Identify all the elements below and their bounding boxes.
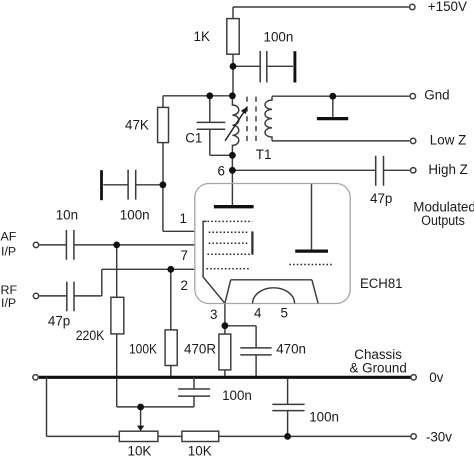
cathode heater right slant xyxy=(312,280,318,304)
svg-text:I/P: I/P xyxy=(1,296,16,310)
svg-text:470n: 470n xyxy=(276,341,306,356)
resistor R-470R leads xyxy=(224,326,226,376)
wire Gnd row xyxy=(272,95,409,97)
capacitor C1 leads xyxy=(210,96,233,156)
triode grid row xyxy=(289,264,333,266)
svg-text:100n: 100n xyxy=(309,410,339,425)
terminal AF xyxy=(33,242,38,247)
junction dot pin 6 xyxy=(229,167,236,174)
svg-text:0v: 0v xyxy=(429,370,443,385)
svg-text:4: 4 xyxy=(254,305,262,320)
svg-text:10K: 10K xyxy=(188,444,212,459)
wire RF input xyxy=(39,269,195,296)
terminal Low Z xyxy=(410,138,415,143)
junction dot -30v/100n xyxy=(284,433,291,440)
svg-text:10K: 10K xyxy=(128,444,152,459)
capacitor C-100n-br plates xyxy=(272,404,304,410)
junction dot 47K bottom xyxy=(160,181,167,188)
svg-text:100n: 100n xyxy=(120,208,150,223)
tube ECH81 envelope xyxy=(195,184,350,304)
terminal +150V xyxy=(410,4,415,9)
capacitor C-47p-out plates xyxy=(376,156,384,186)
svg-text:100n: 100n xyxy=(264,29,294,44)
wire 100n top branch xyxy=(233,65,293,67)
capacitor C-47p-rf plates xyxy=(67,282,74,312)
wire bias row xyxy=(117,406,194,408)
potentiometer wiper xyxy=(140,407,142,426)
svg-text:10n: 10n xyxy=(56,208,78,223)
svg-text:+150V: +150V xyxy=(428,0,467,14)
transformer T1 secondary winding xyxy=(265,96,272,140)
svg-text:470R: 470R xyxy=(184,342,216,357)
capacitor C-100n-top plates xyxy=(260,51,267,83)
junction dot Gnd xyxy=(329,93,336,100)
junction dot C1 top xyxy=(206,92,213,99)
ground symbol bar xyxy=(317,117,348,120)
potentiometer wiper arrowhead xyxy=(137,426,144,431)
capacitor C-10n plates xyxy=(66,230,74,260)
svg-text:100n: 100n xyxy=(222,388,252,403)
resistor R-470R body xyxy=(219,334,231,370)
capacitor C-100n-bl plates xyxy=(178,389,210,396)
svg-text:I/P: I/P xyxy=(1,245,16,259)
capacitor C-100n-bl leads xyxy=(193,377,195,407)
heptode grid row 4 xyxy=(208,253,253,255)
terminal Gnd xyxy=(410,94,415,99)
terminal High Z xyxy=(411,168,416,173)
svg-text:3: 3 xyxy=(210,307,217,322)
svg-text:ECH81: ECH81 xyxy=(360,276,403,292)
svg-text:6: 6 xyxy=(218,164,225,179)
resistor R-10K body xyxy=(182,431,219,441)
svg-text:7: 7 xyxy=(181,248,188,263)
screen grid tie bracket xyxy=(251,231,253,254)
svg-text:2: 2 xyxy=(181,278,188,293)
transformer T1 core xyxy=(247,97,256,141)
terminal 0v right xyxy=(411,375,416,380)
svg-text:Gnd: Gnd xyxy=(424,87,449,102)
resistor R-47K leads xyxy=(162,96,164,185)
chassis plate bar mid-left xyxy=(100,170,103,200)
svg-text:1: 1 xyxy=(180,211,187,226)
C1 variable arrow xyxy=(225,112,244,141)
wire 100n mid row xyxy=(103,184,163,186)
potentiometer P-10K body xyxy=(119,431,158,441)
terminal 0v left xyxy=(33,375,38,380)
svg-text:AF: AF xyxy=(1,230,17,244)
cathode heater left slant xyxy=(225,280,231,304)
svg-text:C1: C1 xyxy=(185,130,202,145)
junction dot 1K/100n xyxy=(230,63,237,70)
wire Low Z row xyxy=(272,140,410,142)
wire 0v rail xyxy=(39,376,411,379)
svg-text:1K: 1K xyxy=(194,29,210,44)
grid bracket to pin 3 xyxy=(203,221,225,303)
triode anode lead xyxy=(311,184,313,250)
capacitor C-100n-br leads xyxy=(287,379,289,437)
resistor R-1K leads xyxy=(232,7,234,96)
heptode anode bar xyxy=(214,205,254,208)
wire pot to 10K xyxy=(158,435,182,437)
junction dot pin 2/100K xyxy=(167,266,174,273)
wire -30v row xyxy=(219,435,411,437)
svg-text:47p: 47p xyxy=(48,314,70,329)
heptode grid row 2 xyxy=(209,231,249,233)
wire 47K to primary link xyxy=(163,95,232,97)
heptode anode lead pin 6 xyxy=(231,170,233,205)
heptode grid row 3 xyxy=(209,242,248,244)
capacitor C-470n branch xyxy=(225,326,256,376)
svg-text:T1: T1 xyxy=(256,147,272,162)
wire AF input xyxy=(39,244,195,246)
svg-text:5: 5 xyxy=(281,305,288,320)
terminal -30v xyxy=(411,434,416,439)
svg-text:100K: 100K xyxy=(129,341,157,356)
resistor R-220K leads xyxy=(116,245,118,407)
resistor R-1K body xyxy=(227,19,239,55)
junction dot pin 3 xyxy=(222,322,229,329)
heptode grid row 1 xyxy=(208,220,253,222)
triode anode bar xyxy=(295,249,328,252)
resistor R-220K body xyxy=(111,297,124,334)
svg-text:220K: 220K xyxy=(76,328,105,343)
svg-text:& Ground: & Ground xyxy=(350,361,407,376)
capacitor C-100n-mid plates xyxy=(128,170,136,200)
wire left drop to pot xyxy=(47,377,120,436)
junction dot AF/220K xyxy=(113,242,120,249)
wire +150V rail xyxy=(233,6,409,8)
svg-text:Outputs: Outputs xyxy=(421,213,465,228)
svg-text:High Z: High Z xyxy=(428,162,467,177)
cathode heater top xyxy=(231,279,312,281)
capacitor C1 plates xyxy=(197,122,226,129)
capacitor C-470n plates xyxy=(240,348,271,355)
chassis plate bar top xyxy=(293,51,296,82)
svg-text:47p: 47p xyxy=(370,191,392,206)
cathode arc xyxy=(253,288,295,304)
transformer T1 primary winding xyxy=(232,96,238,171)
wire High Z row xyxy=(232,169,409,171)
junction dot primary bottom xyxy=(229,152,236,159)
svg-text:Low Z: Low Z xyxy=(430,133,466,148)
resistor R-47K body xyxy=(158,107,169,142)
svg-text:-30v: -30v xyxy=(426,429,452,444)
svg-text:47K: 47K xyxy=(125,118,149,133)
terminal RF xyxy=(33,293,38,298)
resistor R-100K body xyxy=(165,330,177,366)
junction dot primary top xyxy=(229,92,236,99)
heptode grid row 5 xyxy=(206,268,250,270)
wire pin 1 xyxy=(163,185,195,232)
junction dot bias/wiper xyxy=(137,404,144,411)
wire pin 3 lead xyxy=(224,303,226,325)
ground symbol stem xyxy=(332,96,334,117)
resistor R-100K leads xyxy=(170,269,172,376)
